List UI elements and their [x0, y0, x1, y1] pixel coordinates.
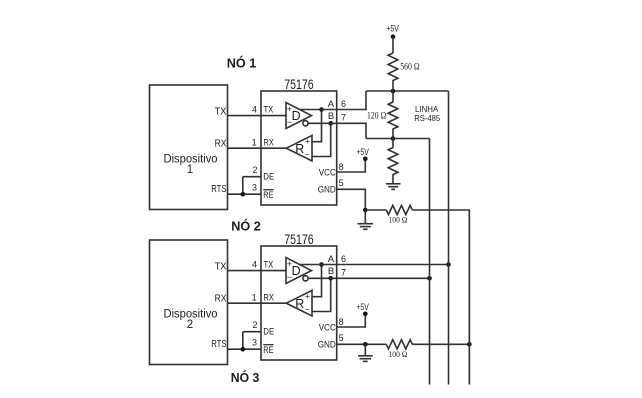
wire 100 ohm to ground bus (node 2) — [412, 343, 469, 345]
resistor 100 ohm (node 2 ground) — [386, 340, 412, 349]
wire TX (Dispositivo 2 to driver input) — [228, 270, 287, 272]
svg-text:A: A — [328, 254, 335, 265]
junction RTS-DE-RE — [241, 192, 246, 197]
svg-text:4: 4 — [252, 260, 257, 270]
IC 75176 (node 2) package outline — [261, 231, 337, 360]
svg-text:+5V: +5V — [356, 147, 368, 157]
junction GND node 1 — [363, 208, 368, 213]
driver D (node 2) — [286, 258, 312, 284]
pin 5 GND label — [318, 178, 344, 195]
wire RTS / RE (pin 3) — [228, 348, 262, 350]
svg-text:DE: DE — [263, 172, 274, 183]
svg-text:VCC: VCC — [319, 322, 336, 333]
bus line B (RS-485) — [429, 139, 431, 385]
svg-text:GND: GND — [318, 184, 336, 195]
svg-text:6: 6 — [341, 254, 346, 264]
label LINHA RS-485 — [414, 104, 440, 123]
label 560 ohm (top) — [400, 61, 420, 71]
svg-text:RX: RX — [264, 138, 275, 149]
junction ground bus node 2 — [467, 342, 472, 347]
svg-text:R: R — [295, 142, 304, 156]
svg-text:+5V: +5V — [386, 23, 398, 33]
label 100 ohm (node 2) — [389, 349, 408, 359]
pin 2 DE label — [252, 320, 274, 338]
net A label / pin 6 — [328, 254, 346, 265]
wire GND node 1 step down — [337, 189, 366, 210]
svg-text:560 Ω: 560 Ω — [400, 61, 420, 71]
device box Dispositivo 1 — [150, 85, 228, 210]
svg-text:R: R — [295, 297, 304, 311]
pin 1 RX label — [252, 138, 275, 149]
net A label / pin 6 — [328, 99, 346, 110]
svg-text:3: 3 — [252, 337, 257, 347]
junction RTS-DE-RE — [241, 347, 246, 352]
receiver R (node 2) — [286, 290, 312, 316]
wire DE (pin 2) — [243, 176, 261, 178]
svg-text:NÓ 1: NÓ 1 — [227, 55, 257, 70]
svg-text:1: 1 — [187, 164, 193, 176]
+5V supply (node 1 VCC) — [356, 147, 368, 161]
driver D (node 1) — [286, 103, 312, 129]
svg-text:100 Ω: 100 Ω — [389, 215, 408, 225]
svg-text:−: − — [287, 117, 292, 127]
junction A / 560-120 resistors — [391, 89, 396, 94]
wire RX (Dispositivo 2 to receiver output) — [228, 302, 287, 304]
svg-text:2: 2 — [187, 319, 193, 331]
svg-text:120 Ω: 120 Ω — [367, 111, 387, 121]
pin 2 DE label — [252, 165, 274, 183]
svg-text:5: 5 — [339, 178, 344, 188]
wire net B node 1 (pin 7 to termination bottom) — [308, 123, 366, 138]
svg-text:8: 8 — [339, 317, 344, 327]
pin 4 TX label — [252, 105, 274, 116]
net B label / pin 7 — [328, 266, 346, 277]
wire DE-RE tie — [242, 177, 244, 195]
wire DE (pin 2) — [243, 331, 261, 333]
bus line A (RS-485) — [448, 91, 450, 385]
resistor 560 ohm pull-down — [388, 148, 398, 184]
svg-text:RS-485: RS-485 — [414, 113, 440, 123]
+5V supply (node 2 VCC) — [356, 302, 368, 316]
svg-text:4: 4 — [252, 105, 257, 115]
junction GND node 2 — [363, 342, 368, 347]
svg-text:RX: RX — [215, 137, 227, 149]
pin 3 RE label (active low) — [252, 337, 274, 356]
svg-text:RE: RE — [263, 190, 273, 201]
svg-text:DE: DE — [263, 327, 274, 338]
IC 75176 (node 1) package outline — [261, 76, 337, 205]
svg-text:A: A — [328, 99, 335, 110]
svg-text:+: + — [305, 136, 310, 146]
junction net B on bus — [427, 276, 432, 281]
svg-text:−: − — [305, 304, 310, 314]
wire TX (Dispositivo 1 to driver input) — [228, 115, 287, 117]
svg-text:RX: RX — [215, 292, 227, 304]
svg-text:7: 7 — [341, 267, 346, 277]
svg-text:1: 1 — [252, 293, 257, 303]
svg-text:GND: GND — [318, 339, 336, 350]
svg-text:VCC: VCC — [319, 167, 336, 178]
svg-text:75176: 75176 — [284, 76, 314, 92]
junction on net A — [319, 107, 324, 112]
svg-text:6: 6 — [341, 99, 346, 109]
resistor 560 ohm pull-up — [388, 53, 398, 91]
resistor 100 ohm (node 1 ground) — [365, 209, 386, 211]
svg-text:−: − — [305, 149, 310, 159]
+5V supply (termination pull-up) — [386, 23, 398, 39]
junction on net B — [328, 276, 333, 281]
bus line ground — [468, 210, 470, 385]
svg-text:+5V: +5V — [356, 302, 368, 312]
resistor 120 ohm termination — [392, 91, 394, 102]
svg-text:1: 1 — [252, 138, 257, 148]
net B label / pin 7 — [328, 111, 346, 122]
svg-text:NÓ 2: NÓ 2 — [231, 218, 261, 233]
driver inverting output bubble — [303, 121, 308, 126]
wire 100 ohm to ground bus — [412, 210, 469, 385]
pin 8 VCC label — [319, 162, 344, 178]
device box Dispositivo 2 — [150, 240, 228, 365]
svg-text:3: 3 — [252, 182, 257, 192]
wire A to receiver + input — [312, 265, 322, 297]
junction on net B — [328, 121, 333, 126]
svg-text:TX: TX — [215, 261, 227, 273]
svg-text:8: 8 — [339, 162, 344, 172]
junction net A on bus — [446, 262, 451, 267]
svg-text:NÓ 3: NÓ 3 — [231, 370, 260, 385]
svg-text:+: + — [287, 103, 292, 113]
svg-text:D: D — [292, 109, 301, 123]
pin 4 TX label — [252, 260, 274, 271]
wire RTS / RE (pin 3) — [228, 193, 262, 195]
svg-text:RE: RE — [263, 345, 273, 356]
ground (node 2) — [364, 344, 366, 356]
svg-text:−: − — [287, 272, 292, 282]
ground (pull-down resistor) — [386, 184, 401, 190]
pin 8 VCC label — [319, 317, 344, 333]
svg-text:5: 5 — [339, 333, 344, 343]
pin 5 GND label — [318, 333, 344, 350]
wire VCC to +5V — [337, 314, 366, 327]
svg-text:D: D — [292, 264, 301, 278]
wire net B node 2 (pin 7 to bus) — [308, 277, 429, 279]
svg-text:B: B — [328, 266, 334, 277]
label 100 ohm (node 1) — [389, 215, 408, 225]
wire B to receiver - input — [312, 123, 331, 156]
svg-text:75176: 75176 — [284, 231, 314, 247]
svg-text:TX: TX — [215, 106, 227, 118]
svg-text:TX: TX — [264, 260, 274, 271]
junction B / 120-560 resistors — [391, 136, 396, 141]
svg-text:100 Ω: 100 Ω — [389, 349, 408, 359]
receiver R (node 1) — [286, 135, 312, 161]
svg-text:2: 2 — [252, 320, 257, 330]
label 120 ohm — [367, 111, 387, 121]
wire net A node 1 (pin 6 to termination top) — [300, 91, 366, 110]
wire RX (Dispositivo 1 to receiver output) — [228, 147, 287, 149]
svg-text:+: + — [287, 258, 292, 268]
ground (node 1) — [364, 210, 366, 224]
wire GND node 2 — [337, 343, 387, 345]
wire bottom junction row to RS-485 line B — [366, 138, 430, 140]
pin 1 RX label — [252, 293, 275, 304]
svg-text:RTS: RTS — [211, 183, 226, 195]
pin 3 RE label (active low) — [252, 182, 274, 201]
junction on net A — [319, 262, 324, 267]
wire top junction row to RS-485 line A — [366, 90, 449, 92]
svg-text:2: 2 — [252, 165, 257, 175]
svg-text:RTS: RTS — [211, 338, 226, 350]
svg-text:+: + — [305, 291, 310, 301]
driver inverting output bubble — [303, 276, 308, 281]
wire B to receiver - input — [312, 278, 331, 311]
wire VCC to +5V — [337, 159, 366, 172]
svg-text:RX: RX — [264, 293, 275, 304]
svg-text:B: B — [328, 111, 334, 122]
svg-text:TX: TX — [264, 105, 274, 116]
svg-text:7: 7 — [341, 112, 346, 122]
wire A to receiver + input — [312, 110, 322, 142]
wire DE-RE tie — [242, 332, 244, 350]
wire net A node 2 (pin 6 to bus) — [300, 264, 449, 266]
